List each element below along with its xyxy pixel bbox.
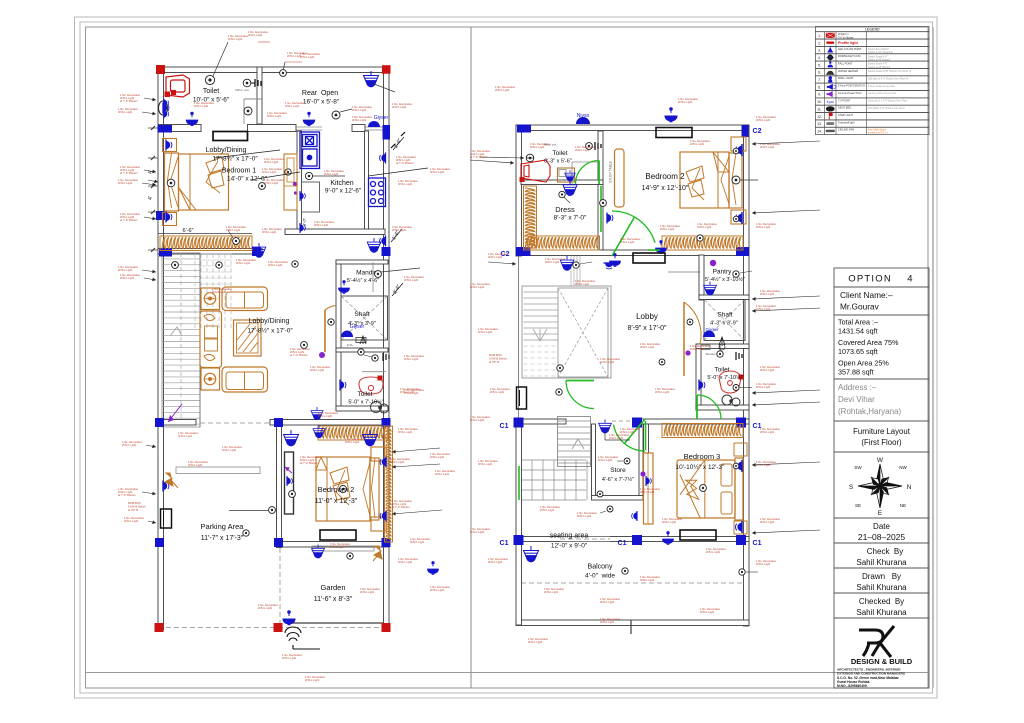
svg-text:at 7'-0" Bottom: at 7'-0" Bottom: [396, 161, 414, 165]
bedroom2L wall fixtures right: [380, 457, 386, 468]
bedroom2L AC rect: [320, 530, 356, 540]
svg-text:3.: 3.: [818, 49, 821, 53]
point parking: [243, 530, 249, 536]
svg-text:16′-0″ x 5′-8″: 16′-0″ x 5′-8″: [303, 99, 340, 106]
stair2 down arrow: [533, 329, 547, 341]
svg-text:6 KW B.Switch: 6 KW B.Switch: [489, 357, 507, 361]
svg-text:Lobby/Dining: Lobby/Dining: [249, 318, 290, 325]
svg-text:Toilet: Toilet: [203, 88, 219, 95]
left plan top wall: [158, 67, 389, 73]
window lintel rect: [213, 132, 248, 141]
mandir left wall: [336, 260, 341, 410]
black leaders right wall lower: [392, 448, 440, 452]
blue wall marker left y125: [158, 125, 173, 133]
kitchen left wall: [297, 131, 302, 232]
svg-text:LED COLOR POINT: LED COLOR POINT: [838, 47, 862, 51]
store walllight lower: [632, 511, 637, 521]
svg-text:DOWNLIGHT CUM: DOWNLIGHT CUM: [838, 54, 860, 58]
svg-text:W.M.L Light: W.M.L Light: [392, 228, 406, 232]
svg-text:Bedroom 2: Bedroom 2: [645, 172, 685, 181]
svg-text:W.M.L Light: W.M.L Light: [118, 181, 132, 185]
ceiling point rear open: [332, 111, 340, 119]
toilet2 point: [358, 349, 364, 355]
bedroom2L left wall: [277, 420, 282, 548]
svg-text:W.M.L Light: W.M.L Light: [392, 105, 406, 109]
blue marker top-right right plan: [742, 125, 749, 137]
svg-text:W.M.L Light: W.M.L Light: [678, 100, 692, 104]
svg-text:Giyser: Giyser: [705, 327, 719, 332]
garden lamp: [428, 562, 439, 575]
bed bedroom2R nightstand top: [731, 137, 746, 151]
bedroom2L shelf below: [312, 546, 374, 551]
store right wall: [639, 424, 643, 500]
bedroom3 wardrobe hatch: [662, 424, 743, 438]
svg-text:11′-7″ x 17′-3″: 11′-7″ x 17′-3″: [201, 535, 244, 542]
title box layout name: [834, 421, 929, 452]
svg-text:W.M.L Light: W.M.L Light: [700, 610, 714, 614]
stair2 treads solid: [524, 291, 559, 293]
lamp lobby2 points: [301, 342, 308, 349]
svg-text:14′-9″ x 12′-10″: 14′-9″ x 12′-10″: [642, 185, 689, 192]
svg-text:W.M.L Light: W.M.L Light: [398, 560, 412, 564]
legend row 14: [816, 127, 930, 134]
title box drawn by: [834, 568, 929, 593]
bedroom2R right wall fixtures: [735, 144, 742, 156]
bed1 point: [167, 179, 175, 187]
blue marker C1 right: [736, 418, 746, 428]
rear open bottom wall segment: [352, 125, 365, 132]
svg-text:W.M.L Light: W.M.L Light: [756, 225, 770, 229]
svg-text:Store: Store: [610, 467, 626, 474]
svg-text:W.M.L Light: W.M.L Light: [706, 550, 720, 554]
svg-text:Tube/wall light: Tube/wall light: [838, 120, 855, 124]
toilet1 right wall: [257, 67, 262, 124]
toilet1 point leader: [205, 75, 214, 84]
svg-text:5′-0″ x 7′-10½″: 5′-0″ x 7′-10½″: [348, 399, 383, 406]
red tub corner dot: [171, 90, 176, 95]
lamp above top wall: [665, 108, 677, 122]
bed bedroom2R nightstand bottom: [731, 210, 746, 224]
blue wall marker left y249: [159, 248, 172, 257]
svg-text:W.M.L Light: W.M.L Light: [124, 519, 138, 523]
svg-text:Niyso: Niyso: [577, 113, 590, 119]
title block: [834, 268, 929, 688]
ceiling point toilet1 door: [280, 70, 287, 77]
mandir top wall: [336, 260, 388, 264]
svg-text:W.M.L Light: W.M.L Light: [600, 360, 614, 364]
purple dot lobby: [710, 260, 716, 266]
armchair bottom-left lobby2: [201, 368, 220, 390]
svg-text:W.M.L Light: W.M.L Light: [345, 440, 359, 444]
svg-text:W.M.L Light: W.M.L Light: [212, 290, 226, 294]
store left wall: [592, 424, 596, 498]
svg-text:Rear Open: Rear Open: [302, 90, 338, 97]
svg-text:W.M.L Light: W.M.L Light: [248, 33, 262, 37]
svg-text:Client Name:–: Client Name:–: [840, 290, 893, 300]
stair2 points: [573, 262, 579, 268]
svg-text:W.M.L Light: W.M.L Light: [430, 588, 444, 592]
legend row 13: [816, 120, 930, 127]
right plan left wall lower: [516, 420, 522, 625]
svg-text:Total Area :–: Total Area :–: [838, 318, 878, 327]
wall light left bed1 bottom: [166, 212, 172, 223]
svg-text:4′-3″ x 3′-9″: 4′-3″ x 3′-9″: [710, 321, 738, 327]
wall light left top: [163, 103, 169, 114]
svg-text:21–08–2025: 21–08–2025: [858, 532, 906, 542]
svg-text:W.M.L Light: W.M.L Light: [470, 530, 484, 534]
svg-text:8′-9″ x 17′-0″: 8′-9″ x 17′-0″: [627, 325, 667, 332]
svg-text:W: W: [877, 457, 884, 464]
svg-text:at 7'-0" Bottom: at 7'-0" Bottom: [118, 493, 136, 497]
red column marker top-left: [156, 65, 165, 74]
MCB box right plan: [517, 387, 527, 409]
svg-text:W.M.L Light: W.M.L Light: [690, 142, 704, 146]
svg-text:W.M.L Light: W.M.L Light: [488, 560, 502, 564]
right plan left wall upper: [516, 125, 522, 256]
seating wall dashed opening: [560, 537, 610, 542]
stair2 treads dashed: [524, 345, 559, 347]
svg-text:WALL LIGHT: WALL LIGHT: [838, 76, 854, 80]
svg-text:W.M.L Light: W.M.L Light: [697, 225, 711, 229]
svg-text:W.M.L Light: W.M.L Light: [228, 37, 242, 41]
armchair top-left lobby2: [201, 288, 220, 310]
bed bedroom2L nightstand right-top: [371, 447, 386, 461]
svg-text:W.M.L Light: W.M.L Light: [226, 228, 240, 232]
left plan right wall: [384, 67, 390, 630]
svg-text:Sahil Khurana: Sahil Khurana: [856, 608, 907, 617]
legend row 6: [816, 68, 930, 75]
svg-text:6.: 6.: [818, 71, 821, 75]
svg-text:Mandir: Mandir: [356, 270, 377, 277]
svg-text:Bedroom 2: Bedroom 2: [318, 485, 355, 494]
red column marker bottom-right: [382, 623, 391, 632]
svg-text:Furniture Layout: Furniture Layout: [853, 427, 911, 436]
svg-text:Shaft: Shaft: [717, 312, 732, 319]
svg-text:W.M.L Light: W.M.L Light: [690, 347, 704, 351]
legend row 2: [816, 39, 930, 46]
svg-text:W.M.L Light: W.M.L Light: [188, 463, 202, 467]
lamp mandir: [339, 281, 350, 294]
svg-text:Address :–: Address :–: [838, 383, 877, 392]
svg-text:DESIGN & BUILD: DESIGN & BUILD: [851, 657, 913, 666]
title box option: [834, 268, 929, 287]
wardrobe2 hatch lobby bottom: [318, 426, 388, 440]
svg-text:W.M.L Light: W.M.L Light: [310, 368, 324, 372]
toilet3 bottom wall: [521, 180, 603, 185]
svg-text:DECK BED: DECK BED: [838, 106, 851, 110]
svg-text:W.M.L Light: W.M.L Light: [540, 508, 554, 512]
title box date: [834, 518, 929, 543]
kitchen appliance stack: [300, 132, 320, 169]
svg-text:W.M.L Light: W.M.L Light: [756, 118, 770, 122]
svg-text:4′-6″ x 7′-7½″: 4′-6″ x 7′-7½″: [602, 476, 634, 483]
svg-text:NE: NE: [900, 503, 906, 508]
svg-text:Lobby: Lobby: [636, 312, 658, 321]
kitchen point mid: [305, 172, 312, 179]
left plan group: [128, 42, 420, 649]
svg-text:W.M.L Light: W.M.L Light: [262, 170, 276, 174]
svg-text:W.M.L Light: W.M.L Light: [258, 606, 272, 610]
orange flag garden: [373, 546, 382, 561]
svg-text:W.M.L Light: W.M.L Light: [404, 278, 418, 282]
store bottom wall: [592, 496, 644, 501]
shaft2 box: [704, 300, 745, 341]
svg-text:9.: 9.: [818, 93, 821, 97]
stairwell2 box: [522, 286, 611, 378]
bed bedroom1 nightstand bottom: [163, 213, 177, 226]
pendant below wardrobe1: [367, 238, 381, 252]
svg-text:C1: C1: [500, 540, 509, 547]
svg-text:W.M.L Light: W.M.L Light: [398, 430, 412, 434]
svg-text:M.NO.–8295640409.: M.NO.–8295640409.: [837, 684, 868, 688]
bedroom3 left wall fixtures: [640, 471, 645, 476]
svg-text:W.M.L Light: W.M.L Light: [390, 460, 404, 464]
bed bedroom2R: [680, 152, 729, 208]
right plan left wall stair zone: [518, 256, 520, 420]
svg-text:W.M.L Light: W.M.L Light: [545, 260, 559, 264]
blue wall marker left y213: [156, 211, 165, 220]
lobby points: [687, 319, 693, 325]
svg-text:1073.65 sqft: 1073.65 sqft: [838, 347, 878, 356]
legend row 11: [816, 105, 930, 112]
svg-text:5′-4½″ x 3′-10½″: 5′-4½″ x 3′-10½″: [705, 276, 745, 283]
svg-text:W.M.L Light: W.M.L Light: [267, 114, 281, 118]
svg-text:W.M.L Light: W.M.L Light: [330, 545, 344, 549]
svg-text:W.M.L Light: W.M.L Light: [488, 255, 502, 259]
kitchen hob right wall: [369, 178, 386, 207]
svg-text:Toilet: Toilet: [552, 150, 567, 157]
svg-text:5′-0″ x 7′-10½″: 5′-0″ x 7′-10½″: [707, 374, 742, 381]
striped dome rear open corner: [364, 71, 379, 87]
toilet4 top wall: [696, 344, 749, 349]
sheet border inner frame: [86, 27, 929, 688]
green door toilet4 entry: [696, 395, 698, 419]
svg-text:Garden: Garden: [320, 583, 345, 592]
green door bedroom3 entry: [614, 425, 646, 451]
svg-text:8.: 8.: [818, 85, 821, 89]
lamp below C2 wall: [560, 256, 574, 270]
svg-text:11′-6″ x 8′-3″: 11′-6″ x 8′-3″: [314, 596, 353, 603]
svg-text:6′-6″: 6′-6″: [183, 228, 194, 234]
svg-text:W.M.L Light: W.M.L Light: [262, 230, 276, 234]
svg-text:5′-4½″ x 4′-6″: 5′-4½″ x 4′-6″: [347, 277, 379, 284]
svg-text:1431.54 sqft: 1431.54 sqft: [838, 327, 878, 336]
svg-text:at 3'6″ B.: at 3'6″ B.: [489, 360, 500, 364]
toilet1 shower partition: [243, 99, 245, 124]
svg-text:W.M.L Light: W.M.L Light: [478, 330, 492, 334]
svg-text:at 7'-0" Bottom: at 7'-0" Bottom: [120, 99, 138, 103]
green door toilet3: [576, 161, 600, 185]
bedroom1 bottom wall: [285, 229, 385, 235]
svg-text:at 3′6″ B.: at 3′6″ B.: [128, 508, 139, 512]
blue wall marker kitchen corner: [382, 247, 391, 256]
svg-text:W.M.L Light: W.M.L Light: [662, 520, 676, 524]
kitchen counter lower: [302, 182, 320, 212]
legend row 4: [816, 54, 930, 61]
toilet2 top wall: [336, 348, 388, 352]
svg-text:Switch board at 48" Bottom fro: Switch board at 48" Bottom from Floor ht: [868, 70, 911, 73]
bedroom2L top wall: [270, 420, 389, 426]
svg-text:Sahil Khurana: Sahil Khurana: [856, 558, 907, 567]
svg-text:Pantry: Pantry: [713, 269, 733, 276]
orange flag parking: [165, 473, 178, 488]
toilet1 mirror unit: [243, 79, 251, 87]
legend row 10: [816, 98, 930, 105]
svg-text:W.M.L Light: W.M.L Light: [194, 104, 208, 108]
svg-text:OPTION 4: OPTION 4: [848, 274, 913, 285]
toilet3 right wall: [598, 131, 603, 250]
svg-text:W.M.L Light: W.M.L Light: [410, 540, 424, 544]
red column marker bottom-mid: [274, 623, 283, 632]
bed bedroom3 nightstand top: [734, 443, 747, 456]
fan point bedroom2R: [600, 200, 607, 207]
earthing symbol below plan: [285, 627, 320, 649]
toilet4 bottom wall: [696, 405, 749, 410]
svg-text:T.V POINT: T.V POINT: [838, 98, 851, 102]
svg-text:W.M.L Light: W.M.L Light: [478, 462, 492, 466]
orange door frame lobby: [683, 302, 685, 376]
legend row 3: [816, 46, 930, 53]
C2 band wall: [516, 250, 749, 256]
toilet2 red dot: [378, 376, 383, 381]
svg-text:W.M.L Light: W.M.L Light: [760, 145, 774, 149]
svg-text:W.M.L Light: W.M.L Light: [756, 562, 770, 566]
pendant toilet3 dress boundary: [563, 181, 577, 196]
right plan fixtures: [524, 108, 759, 576]
svg-text:C2: C2: [753, 128, 762, 135]
left plan red annotations: [118, 30, 456, 682]
toilet4 wall light: [699, 380, 705, 391]
svg-text:6 KW B.Switch: 6 KW B.Switch: [128, 505, 146, 509]
red column marker top-right: [382, 65, 391, 74]
svg-text:W.M.L Light: W.M.L Light: [756, 385, 770, 389]
toilet2 commode circles: [371, 402, 389, 414]
mandir shelf: [372, 262, 374, 292]
svg-text:10′-10½″ x 12′-3″: 10′-10½″ x 12′-3″: [676, 463, 726, 471]
garden bottom thin wall: [285, 622, 384, 624]
svg-text:W.M.L Light: W.M.L Light: [122, 443, 136, 447]
toilet4 points: [717, 351, 723, 357]
svg-text:4′-3″ x 3′-9″: 4′-3″ x 3′-9″: [348, 321, 376, 327]
legend row 12: [816, 113, 930, 120]
toilet4 left wall: [696, 344, 701, 410]
bedroom2R ceiling point: [697, 235, 703, 241]
svg-text:W.M.L Light: W.M.L Light: [609, 436, 623, 440]
balcony points: [622, 568, 628, 574]
svg-text:W.M.L Light: W.M.L Light: [236, 261, 250, 265]
dress wardrobe bottom hatch: [524, 236, 600, 250]
store below point: [607, 506, 613, 512]
svg-text:Profile light: Profile light: [838, 41, 859, 45]
svg-text:W.M.L Light: W.M.L Light: [264, 160, 278, 164]
svg-text:E: E: [878, 510, 883, 517]
parking power box: [161, 509, 172, 528]
svg-text:Toilet: Toilet: [714, 367, 729, 374]
svg-text:4′-0″ wide: 4′-0″ wide: [585, 573, 615, 580]
svg-text:W.M.L Light: W.M.L Light: [577, 514, 591, 518]
svg-text:W.M.L Light: W.M.L Light: [352, 118, 366, 122]
svg-text:seating area: seating area: [550, 533, 589, 540]
svg-text:W.M.L Light: W.M.L Light: [544, 590, 558, 594]
svg-text:W.M.L Light: W.M.L Light: [222, 448, 236, 452]
title box check by: [834, 543, 929, 568]
left plan fixtures group: [163, 70, 438, 625]
svg-text:9′-0″ x 12′-6″: 9′-0″ x 12′-6″: [325, 188, 362, 195]
svg-text:W.M.L Light: W.M.L Light: [435, 472, 449, 476]
stairwell2 open well X: [558, 288, 608, 377]
svg-text:W.M.L Light: W.M.L Light: [398, 182, 412, 186]
svg-text:W.M.L Light: W.M.L Light: [430, 455, 444, 459]
svg-text:5.: 5.: [818, 63, 821, 67]
parking wall light: [163, 481, 169, 492]
green door bedroom2R entry: [612, 211, 655, 243]
blue wall marker right y540: [382, 538, 391, 547]
point lobby1 center: [259, 183, 266, 190]
svg-text:Giyser: Giyser: [374, 115, 389, 121]
legend row 1: [816, 32, 930, 39]
svg-text:W.M.L Light: W.M.L Light: [285, 104, 299, 108]
toilet3 shower cubicle: [572, 161, 600, 163]
svg-text:4.: 4.: [818, 56, 821, 60]
lobby1 bottom wall: [158, 249, 262, 255]
svg-text:W.M.L Light: W.M.L Light: [178, 434, 192, 438]
svg-text:7.: 7.: [818, 78, 821, 82]
svg-text:2.: 2.: [818, 41, 821, 45]
toilet4 round fixtures: [722, 395, 740, 406]
svg-text:WATER HEATER: WATER HEATER: [838, 69, 858, 73]
points dress toilet: [559, 191, 565, 197]
svg-text:8′-3″ x 7′-0″: 8′-3″ x 7′-0″: [554, 215, 587, 222]
bed bedroom1: [179, 154, 229, 210]
title box client name: [834, 287, 929, 315]
store lamp: [599, 420, 612, 433]
legend row 8: [816, 83, 930, 90]
svg-text:W.M.L Light: W.M.L Light: [640, 578, 654, 582]
balcony lamp: [524, 546, 539, 562]
svg-text:CEILING FAN: CEILING FAN: [838, 128, 854, 132]
red column marker bottom-left: [155, 623, 164, 632]
leader rear open top: [285, 61, 302, 63]
store top dashed: [612, 420, 636, 422]
shaft2 giyser: [703, 331, 715, 337]
bedroom2L leader point: [269, 507, 276, 514]
blue wall marker left y540: [155, 538, 164, 547]
toilet2 washbasin: [359, 377, 383, 394]
toilet4 washbasin: [719, 371, 741, 393]
svg-text:W.M.L Light: W.M.L Light: [598, 458, 612, 462]
svg-text:4′: 4′: [148, 196, 154, 200]
wall light bedroom2R left: [607, 213, 613, 224]
svg-text:Devi Vihar: Devi Vihar: [838, 395, 875, 404]
strike line lobby1 label: [214, 150, 280, 158]
svg-text:W.M.L Light: W.M.L Light: [620, 240, 634, 244]
svg-text:SE: SE: [855, 503, 861, 508]
garden bottom lamp: [283, 611, 295, 625]
svg-text:Mr.Gourav: Mr.Gourav: [840, 302, 880, 312]
svg-text:W.M.L Light: W.M.L Light: [640, 345, 654, 349]
lobby2 parking dashed boundary: [200, 422, 270, 424]
svg-text:W.M.L Light: W.M.L Light: [575, 282, 589, 286]
title block separator double line: [933, 27, 935, 688]
svg-text:Wall light at 6'-6" Bottom fro: Wall light at 6'-6" Bottom from Floor ht: [868, 77, 908, 80]
stair1 dashed verticals: [194, 254, 196, 330]
magenta arrow bed1: [368, 168, 428, 176]
toilet3 left point with leader: [526, 154, 534, 162]
toilet4 shower: [736, 352, 742, 360]
bedroom3 AC rect: [633, 253, 665, 263]
coffee table lobby2: [234, 320, 262, 356]
seating area points: [597, 491, 603, 497]
